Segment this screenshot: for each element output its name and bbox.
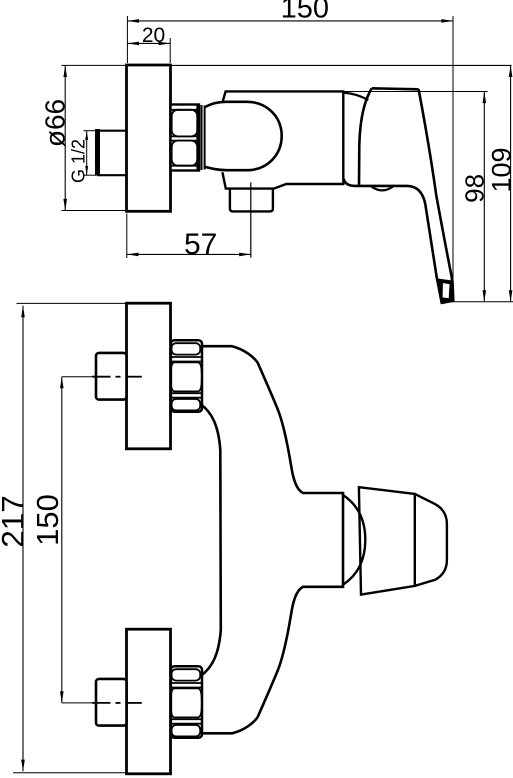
- hex nut facet pill bottom: [172, 141, 198, 166]
- G 1/2 inlet fitting: flange thick bar: [95, 129, 100, 176]
- dimension ø66: bottom extension line: [62, 210, 127, 212]
- cartridge dome bulge arc (front): [343, 495, 365, 585]
- hex nut bottom: lower band lines: [171, 718, 202, 720]
- wall plate top (front view): [127, 303, 171, 449]
- cartridge cap curve: [344, 93, 369, 101]
- lever tip cap white slit: [443, 283, 450, 298]
- svg-text:G 1/2: G 1/2: [69, 139, 89, 183]
- handle knob nose (front): [415, 494, 447, 586]
- dimension G 1/2: bottom arrow: [85, 166, 88, 175]
- hex nut bottom: middle barrel facet: [171, 688, 202, 717]
- lever tip end cap (black): [436, 278, 454, 304]
- dimension ø66: bottom arrow: [63, 199, 67, 211]
- dimension 150 bottom: dimension line: [61, 377, 63, 703]
- dimension 57: left extension: [126, 214, 128, 259]
- dimension 217: top arrow: [21, 306, 25, 318]
- hex nut bottom (front view) outer: [171, 666, 202, 738]
- dimension ø66: top arrow: [63, 65, 67, 77]
- dimension 217: dimension line: [22, 306, 24, 772]
- dimension 20: left arrow: [127, 42, 139, 46]
- outlet spout (side view): [230, 189, 273, 212]
- hex nut inner bottom line: [171, 165, 200, 167]
- dimension 109: top arrow: [509, 65, 513, 77]
- dimension 150 bottom: top arrow: [60, 377, 64, 389]
- hex nut top: lower facet pill: [172, 399, 201, 410]
- centerline bottom inlet: [62, 702, 92, 704]
- hex nut facet pill top: [172, 110, 198, 137]
- hex nut top: middle barrel facet: [171, 362, 202, 391]
- dimension 98: top arrow: [483, 92, 487, 104]
- wall plate (side view): [127, 65, 171, 211]
- dimension 150 top: extension line right (down to lever tip): [452, 16, 454, 302]
- dimension 217: top extension: [17, 302, 127, 304]
- centerline top inlet: [62, 376, 92, 378]
- dimension G 1/2: top arrow: [85, 131, 88, 140]
- hex nut middle band lines: [171, 135, 200, 137]
- svg-text:ø66: ø66: [39, 99, 70, 147]
- hex nut top: lower band lines: [171, 392, 202, 394]
- handle lever (side view): top edge: [372, 88, 419, 89]
- body left edge between plates: [201, 405, 221, 676]
- svg-text:217: 217: [0, 495, 31, 548]
- dimension 20: extension line right: [169, 38, 171, 63]
- dimension 150 bottom: bottom arrow: [60, 691, 64, 703]
- handle lever: left edge: [359, 88, 372, 185]
- dimension ø66: dimension line: [64, 65, 66, 210]
- hex nut top: upper band lines: [171, 356, 202, 358]
- dimension 150 top: dimension line: [127, 20, 453, 22]
- svg-text:109: 109: [486, 147, 513, 192]
- dimension 150 top: extension line left: [126, 16, 128, 63]
- dimension 57: left arrow: [127, 253, 139, 257]
- handle screw boss bump: [371, 186, 393, 190]
- inlet socket bottom (front view): [96, 679, 127, 726]
- valve body block (side view): [222, 91, 343, 188]
- hex nut top (front view) outer: [171, 340, 202, 412]
- dimension 150 top: right arrow: [441, 19, 453, 23]
- G 1/2 inlet fitting: body top line: [97, 130, 127, 132]
- svg-text:150: 150: [281, 0, 329, 25]
- handle knob band (front): [359, 487, 415, 594]
- dimension 57: right arrow: [239, 253, 251, 257]
- dimension 98: top extension: [345, 91, 488, 93]
- handle bottom line with corner into lever: [344, 179, 442, 304]
- body outline (front view): [202, 346, 343, 733]
- dimension 217: bottom arrow: [21, 760, 25, 772]
- hex nut inner top line: [171, 109, 200, 111]
- hex nut inner right edge: [196, 105, 198, 170]
- svg-text:150: 150: [30, 494, 65, 546]
- svg-text:20: 20: [142, 24, 165, 47]
- outlet centerline / 57 extension: [250, 183, 252, 258]
- dimension ø66: top extension line: [62, 64, 127, 66]
- dimension 98: dimension line: [483, 92, 485, 302]
- inlet socket top (front view): [96, 353, 127, 400]
- wall plate bottom (front view): [127, 629, 171, 774]
- dimension 109: bottom arrow: [509, 290, 513, 302]
- hex nut (side view) outer: [171, 105, 200, 171]
- dimension 98: bottom arrow: [483, 290, 487, 302]
- handle lever: right edge down to tip: [419, 89, 454, 299]
- dimension 150 top: left arrow: [127, 19, 139, 23]
- G 1/2 inlet fitting: body bottom line: [97, 174, 127, 176]
- dimension 57: dimension line: [127, 253, 251, 255]
- dimension G 1/2: top extension: [84, 130, 97, 132]
- dimension 20: right arrow: [159, 42, 171, 46]
- washer lines between nut and dome: [201, 105, 203, 170]
- hex nut bottom: lower facet pill: [172, 725, 201, 736]
- hex nut top: upper facet pill: [172, 343, 201, 354]
- dimension G 1/2: bottom extension: [84, 174, 97, 176]
- dimension G 1/2: dimension line: [86, 131, 88, 176]
- wire top line from plate to right (109 extension): [170, 64, 512, 66]
- dimension 20: dimension line: [127, 42, 170, 44]
- body dome (side view): [205, 102, 282, 170]
- hex nut bottom: upper facet pill: [172, 669, 201, 680]
- dimension 217: bottom extension: [13, 772, 127, 774]
- hex nut bottom: upper band lines: [171, 682, 202, 684]
- svg-text:98: 98: [460, 174, 490, 203]
- dimension 109: dimension line: [510, 65, 512, 301]
- dimension 98/109 bottom extension: [452, 301, 513, 303]
- svg-text:57: 57: [184, 228, 217, 261]
